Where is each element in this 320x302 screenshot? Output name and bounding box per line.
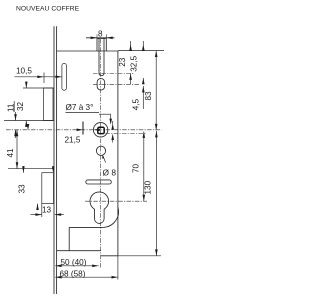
top tab left edge: [96, 38, 98, 51]
body internal cut vertical edge: [68, 227, 70, 250]
dim 13: [31, 205, 64, 216]
oblong centerline: [93, 83, 141, 85]
label diameter 7 at 3 degrees: [66, 103, 113, 125]
dim 10,5: [15, 67, 62, 84]
body internal cut horizontal edge: [69, 226, 103, 228]
faceplate oval hole: [62, 63, 67, 90]
top tab top cap: [97, 37, 106, 39]
dim 32: [16, 82, 27, 127]
rectangle R2 (keep plate lower): [42, 173, 54, 204]
svg-text:32,5: 32,5: [130, 55, 139, 71]
svg-text:8: 8: [98, 29, 103, 38]
square hole centerline: [97, 133, 147, 135]
svg-text:33: 33: [18, 184, 27, 194]
svg-text:23: 23: [118, 57, 127, 67]
top extension line for right dims: [118, 50, 164, 52]
body internal cut corner arc: [103, 207, 118, 227]
cylinder centerline: [85, 200, 147, 202]
dim 68 (58): [55, 256, 118, 280]
lock body top edge: [57, 50, 118, 52]
dim 70: [132, 132, 146, 202]
dim 50 (40): [55, 258, 98, 267]
flat slot above cylinder: [86, 180, 112, 184]
lock body bottom edge right part: [101, 255, 118, 257]
dim 41: [6, 124, 29, 169]
top tab right edge: [105, 38, 107, 51]
hole D8: [96, 146, 105, 155]
dim 23: [118, 41, 132, 84]
dim 83: [144, 51, 158, 131]
faceplate edge view (two vertical lines): [54, 26, 57, 294]
follower square hole: [98, 127, 104, 133]
hub centerline: [6, 129, 162, 131]
svg-text:32: 32: [16, 101, 25, 111]
main vertical axis centerline: [100, 39, 102, 268]
dim 21,5: [65, 122, 100, 145]
lock body bottom edge left part: [57, 250, 101, 252]
leader for D8 label: [102, 155, 106, 163]
slot-bottom centerline: [93, 73, 134, 75]
dim 8 (tab width): [86, 29, 115, 39]
extension line y120.5: [4, 120, 54, 122]
vertical slot in tab/body: [99, 38, 104, 75]
extension line y168.7: [8, 168, 54, 170]
extension line y88: [23, 87, 54, 89]
dim 4,5: [111, 86, 144, 143]
euro cylinder hole: [90, 192, 109, 223]
svg-text:130: 130: [143, 180, 152, 194]
svg-text:NOUVEAU COFFRE: NOUVEAU COFFRE: [16, 6, 80, 13]
svg-text:Ø7 à 3°: Ø7 à 3°: [66, 103, 94, 112]
lock body right edge: [117, 51, 119, 256]
svg-text:10,5: 10,5: [16, 67, 32, 76]
follower hub circle: [93, 123, 107, 137]
extension line below R2: [41, 204, 43, 217]
dim 32,5: [130, 41, 145, 84]
tab extension ticks above dim line: [96, 35, 98, 39]
svg-text:Ø 8: Ø 8: [103, 167, 117, 177]
oblong screw slot: [97, 79, 105, 91]
dim 33: [18, 166, 55, 210]
svg-text:41: 41: [6, 148, 15, 158]
svg-text:21,5: 21,5: [65, 136, 81, 145]
svg-text:4,5: 4,5: [131, 98, 140, 110]
svg-text:70: 70: [132, 163, 141, 173]
svg-text:83: 83: [144, 91, 153, 101]
dim 11: [6, 101, 16, 138]
rectangle R1 (keep plate upper): [44, 88, 54, 121]
dim 130: [118, 131, 161, 256]
svg-text:13: 13: [42, 205, 52, 214]
